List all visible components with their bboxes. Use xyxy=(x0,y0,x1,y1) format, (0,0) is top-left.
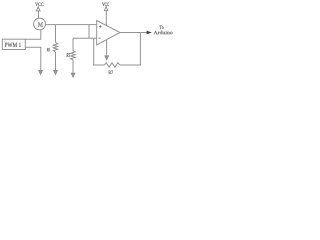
PWM 1 block xyxy=(2,39,25,49)
op-amp - pin mark xyxy=(98,37,100,39)
wire node to resistor R5 xyxy=(55,25,57,43)
resistor R7 xyxy=(71,51,75,60)
op-amp + pin mark xyxy=(99,25,102,28)
PWM 1 label xyxy=(5,43,21,47)
wire motor output node to op-amp + input xyxy=(45,24,96,26)
motor M label xyxy=(38,22,43,26)
ground arrow (op-amp leg) xyxy=(105,56,109,60)
wire R7 to ground xyxy=(72,60,74,73)
wire - input net xyxy=(73,37,97,39)
wire bottom rail to output node xyxy=(120,33,141,66)
wire PWM block to ground xyxy=(25,47,40,70)
wire - node to resistor R7 xyxy=(72,38,74,50)
output arrowhead xyxy=(147,31,152,35)
To label xyxy=(160,26,164,30)
R7 feedback label xyxy=(109,71,114,74)
ground arrow (R7 leg) xyxy=(71,73,75,77)
wire feedback: - node down to bottom rail xyxy=(94,38,105,65)
ground arrow (R5 leg) xyxy=(54,71,58,75)
resistor R5 xyxy=(53,43,57,53)
resistor R7 feedback xyxy=(105,63,120,67)
Arduino label xyxy=(154,31,173,35)
R5 label xyxy=(47,48,50,51)
ground arrow (PWM leg) xyxy=(39,71,43,75)
VCC arrow symbol (motor supply) xyxy=(36,7,40,11)
wire motor bottom to PWM block xyxy=(25,30,40,39)
wire VCC to motor xyxy=(38,11,40,18)
op-amp U1 triangle xyxy=(97,21,120,45)
motor M1 circle xyxy=(34,18,46,30)
VCC label (motor supply) xyxy=(35,3,43,6)
wire R5 to ground xyxy=(55,52,57,71)
VCC arrow symbol (op-amp supply) xyxy=(104,6,107,10)
wire op-amp V- pin to ground xyxy=(106,40,108,57)
wire + node down to - node xyxy=(88,25,90,39)
R7 label xyxy=(67,53,71,57)
VCC label (op-amp supply) xyxy=(102,3,109,6)
wire VCC to op-amp V+ pin xyxy=(105,11,107,26)
wire op-amp output to arrow xyxy=(120,32,147,34)
